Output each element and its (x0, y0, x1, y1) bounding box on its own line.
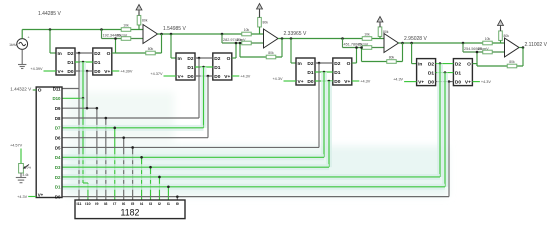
DAC block U4b (D2 O D1 D0 V+) (453, 59, 472, 86)
svg-text:+4.39V: +4.39V (30, 67, 43, 71)
svg-text:+4.3V: +4.3V (360, 80, 370, 84)
svg-text:V+: V+ (298, 79, 304, 85)
svg-text:D2: D2 (187, 56, 193, 62)
wire ADC2 D2 to DAC2 D2 (195, 57, 213, 59)
wire stage3 feedback down (402, 43, 404, 62)
wire stage2 DAC O riser (235, 43, 237, 58)
svg-text:D2: D2 (455, 62, 461, 68)
wire bit D4 column from ADC3 (321, 72, 327, 157)
node stage2 feedback joins summing node (239, 42, 242, 45)
node D9 column joins row (86, 107, 89, 110)
svg-text:O: O (467, 62, 471, 68)
wire V+ DAC1 (112, 70, 120, 72)
wire D4 drop to display I4 (141, 157, 143, 200)
svg-text:2.11002 V: 2.11002 V (525, 42, 548, 48)
wire DAC input row D0 (62, 196, 449, 198)
svg-text:In: In (298, 61, 302, 67)
node stage1 feedback joins summing node (114, 37, 117, 40)
wire stage1 feedback bottom (116, 52, 162, 54)
wire V+ ADC1 (44, 70, 57, 72)
node D10 column joins row (82, 97, 85, 100)
supply arrow stage4 (500, 23, 502, 28)
svg-text:O: O (38, 88, 42, 94)
ADC block U2a (In D2 D1 V+ D0) (176, 53, 195, 80)
svg-text:4.4k: 4.4k (23, 173, 29, 177)
svg-text:80k: 80k (142, 19, 148, 23)
node ADC3 D0 junction (328, 80, 331, 83)
wire DAC input row D6 (62, 137, 208, 139)
svg-text:D4: D4 (55, 155, 61, 160)
svg-text:D0: D0 (428, 80, 434, 86)
svg-text:1kHz: 1kHz (9, 43, 17, 47)
resistor stage4 lower input 40k (483, 50, 493, 54)
svg-text:+4.39V: +4.39V (120, 70, 133, 74)
svg-text:40k: 40k (357, 42, 363, 46)
wire bit D0 column from ADC4 (448, 82, 450, 197)
svg-text:D0: D0 (455, 80, 461, 86)
wire D11 drop to display I11 (78, 89, 80, 201)
svg-text:40k: 40k (478, 47, 484, 51)
wire source top (21, 33, 23, 39)
wire ADC1 D0 to DAC1 D0 (75, 70, 93, 72)
op-amp stage1 (143, 25, 158, 44)
node stage3 output junction (401, 42, 404, 45)
wire bit D1 column from ADC4 (442, 73, 448, 187)
wire ADC4 D2 to DAC4 D2 (436, 63, 454, 65)
wire rail2 output (278, 38, 384, 40)
svg-text:40k: 40k (237, 38, 243, 42)
node rail0 drop junction (100, 28, 103, 31)
wire stage4 feedback bottom (477, 65, 523, 67)
svg-text:10k: 10k (485, 37, 491, 41)
svg-text:I9: I9 (95, 202, 98, 206)
node rail1 to ADC2 In (170, 33, 173, 36)
wire D10 drop to display I10 (87, 183, 89, 200)
svg-text:O: O (107, 51, 111, 57)
node D2 display drop junction (158, 176, 161, 179)
node ADC2 D0 junction (207, 75, 210, 78)
wire bit D6 column from ADC2 (207, 76, 209, 138)
svg-text:V+: V+ (58, 69, 64, 75)
svg-text:I6: I6 (122, 202, 125, 206)
svg-text:1.44285 V: 1.44285 V (38, 11, 61, 17)
svg-text:10k: 10k (364, 32, 370, 36)
wire rail0 Vin (22, 29, 143, 31)
resistor stage4 feedback 80k (507, 64, 517, 68)
wire D9 drop to display I9 (96, 108, 98, 200)
wire stage4 feedback up (476, 52, 478, 66)
node ADC3 D2 junction (318, 62, 321, 65)
svg-text:+4.37V: +4.37V (150, 72, 163, 76)
resistor stage1 upper input 10k (121, 28, 131, 32)
op-amp stage4 (505, 38, 520, 57)
DAC block U9 12-bit (36, 87, 62, 198)
svg-text:80k: 80k (268, 51, 274, 55)
svg-text:80k: 80k (509, 60, 515, 64)
wire bit D9 column from ADC1 (86, 71, 88, 108)
wire V+ ADC4 (404, 81, 417, 83)
ground below source (18, 64, 26, 66)
wire stage3 lower input net (343, 47, 385, 49)
wire DAC input row D10 (62, 97, 83, 99)
wire bit D7 column from ADC2 (201, 67, 207, 128)
svg-text:In: In (58, 51, 62, 57)
wire ADC2 D0 to DAC2 D0 (195, 75, 213, 77)
resistor stage3 upper input 10k (362, 37, 372, 41)
node stage2 output junction (281, 37, 284, 40)
node ADC1 D1 junction (82, 61, 85, 64)
svg-text:D0: D0 (67, 69, 73, 75)
supply arrow stage2 (259, 7, 261, 11)
supply arrow stage3 (379, 20, 381, 24)
ADC block U1a (In D2 D1 V+ D0) (56, 48, 75, 75)
svg-text:V+: V+ (38, 193, 44, 198)
resistor stage2 feedback 80k (266, 55, 276, 59)
wire rail to ADC4 In (411, 43, 413, 64)
wire rail to ADC2 In (170, 34, 172, 58)
svg-text:I1: I1 (167, 202, 170, 206)
node ADC3 D1 junction (323, 71, 326, 74)
node D7 display drop junction (113, 127, 116, 130)
svg-text:+4.3V: +4.3V (272, 77, 282, 81)
wire DAC3 O output (352, 62, 357, 64)
svg-text:I2: I2 (158, 202, 161, 206)
wire stage1 lower input net (102, 38, 144, 40)
wire rail to ADC1 In (49, 30, 51, 54)
node stage1 output junction (160, 33, 163, 36)
svg-text:I11: I11 (76, 202, 81, 206)
node D1 display drop junction (167, 186, 170, 189)
DAC block U3b (D2 O D1 D0 V+) (333, 58, 352, 85)
wire V+ DAC2 (232, 75, 240, 77)
svg-text:D8: D8 (55, 116, 61, 121)
pot wiper arrow (24, 165, 29, 169)
svg-text:V+: V+ (178, 74, 184, 80)
node ADC1 D0 junction (86, 70, 89, 73)
resistor stage2 pull-up 80k (258, 17, 262, 27)
node rail1 drop junction (221, 33, 224, 36)
wire DAC input row D11 (62, 88, 79, 90)
svg-text:In: In (418, 62, 422, 68)
wire bit D10 column from ADC1 (80, 62, 86, 98)
wire D10 column continues (80, 98, 86, 183)
wire bit D5 column from ADC3 (318, 63, 320, 147)
svg-text:V+: V+ (418, 80, 424, 86)
node stage3 DAC O joins summing node (355, 46, 358, 49)
DAC block U1b (D2 O D1 D0 V+) (93, 48, 112, 75)
wire DAC input row D2 (62, 174, 440, 180)
svg-text:1.54985 V: 1.54985 V (163, 26, 186, 32)
ADC block U4a (In D2 D1 V+ D0) (417, 59, 436, 86)
svg-text:D0: D0 (187, 74, 193, 80)
svg-text:V+: V+ (344, 79, 350, 85)
wire ADC3 D1 to DAC3 D1 (315, 71, 333, 73)
svg-text:D2: D2 (94, 51, 100, 57)
wire V+ DAC4 (472, 81, 480, 83)
node D3 display drop junction (149, 166, 152, 169)
svg-text:+4.3V: +4.3V (240, 75, 250, 79)
resistor stage4 pull-up 80k (499, 31, 503, 41)
svg-text:D0: D0 (214, 74, 220, 80)
wire pot top stub (20, 149, 22, 165)
svg-text:D2: D2 (334, 61, 340, 67)
svg-text:I3: I3 (149, 202, 152, 206)
svg-text:D10: D10 (52, 96, 61, 101)
svg-text:D3: D3 (55, 165, 61, 170)
node ADC4 D1 junction (444, 71, 447, 74)
node rail3 to ADC4 In (410, 42, 413, 45)
svg-text:2.95028 V: 2.95028 V (404, 36, 427, 42)
wire D3 drop to display I3 (150, 167, 152, 200)
node stage3 feedback joins summing node (360, 46, 363, 49)
svg-text:+4.3V: +4.3V (393, 78, 403, 82)
wire DAC input row D1 (62, 184, 445, 190)
wire pot to ground (20, 173, 22, 178)
wire ADC2 D1 to DAC2 D1 (195, 66, 213, 68)
wire ADC4 D1 to DAC4 D1 (436, 72, 454, 74)
svg-text:V+: V+ (224, 74, 230, 80)
svg-text:D1: D1 (334, 70, 340, 76)
wire stage2 pull-up to rail (259, 27, 261, 34)
wire stage2 feedback up (239, 43, 241, 57)
svg-text:D5: D5 (55, 145, 61, 150)
wire ADC1 D1 to DAC1 D1 (75, 61, 93, 63)
wire stage4 pull-up to rail (500, 40, 502, 43)
svg-text:80k: 80k (263, 21, 269, 25)
node D5 display drop junction (131, 146, 134, 149)
node rail2 drop junction (341, 37, 344, 40)
node stage4 feedback joins summing node (476, 51, 479, 54)
wire ADC3 D0 to DAC3 D0 (315, 80, 333, 82)
svg-text:D2: D2 (67, 51, 73, 57)
wire bit D8 column from ADC2 (198, 58, 200, 118)
resistor stage1 pull-up 80k (137, 15, 141, 25)
DAC block U2b (D2 O D1 D0 V+) (213, 53, 232, 80)
resistor stage2 upper input 10k (242, 32, 252, 36)
op-amp stage3 (384, 34, 399, 53)
op-amp stage2 (264, 29, 279, 48)
svg-text:I7: I7 (113, 202, 116, 206)
wire DAC V+ supply (28, 196, 36, 198)
svg-text:D1: D1 (94, 60, 100, 66)
svg-text:D0: D0 (94, 69, 100, 75)
wire stage3 feedback up (361, 48, 363, 62)
svg-text:V+: V+ (465, 80, 471, 86)
potentiometer R13 (19, 164, 24, 174)
svg-text:D2: D2 (214, 56, 220, 62)
svg-text:D11: D11 (53, 86, 61, 91)
wire stage3 DAC O riser (356, 48, 358, 63)
node ADC2 D2 junction (198, 57, 201, 60)
node rail3 drop junction (462, 42, 465, 45)
svg-text:80k: 80k (148, 47, 154, 51)
svg-text:1.44322 V: 1.44322 V (10, 87, 32, 92)
svg-text:I5: I5 (131, 202, 134, 206)
wire D6 drop to display I6 (123, 138, 125, 200)
svg-text:D2: D2 (307, 61, 313, 67)
svg-text:In: In (178, 56, 182, 62)
svg-text:I8: I8 (104, 202, 107, 206)
svg-text:10k: 10k (123, 23, 129, 27)
node D0 display drop junction (176, 195, 179, 198)
node rail0 to ADC1 In (49, 28, 52, 31)
resistor stage3 feedback 80k (387, 60, 397, 64)
node D8 display drop junction (105, 117, 108, 120)
svg-text:80k: 80k (389, 56, 395, 60)
wire stage3 pull-up to rail (379, 36, 381, 38)
svg-text:D6: D6 (55, 135, 61, 140)
svg-text:D1: D1 (67, 60, 73, 66)
wire stage4 feedback down (522, 48, 524, 67)
wire D1 drop to display I1 (167, 187, 169, 200)
svg-text:D0: D0 (55, 194, 61, 199)
svg-text:D0: D0 (307, 79, 313, 85)
wire bit D3 column from ADC3 (326, 81, 332, 167)
wire stage1 feedback down (161, 34, 163, 53)
svg-text:+4.3V: +4.3V (481, 80, 491, 84)
wire stage2 feedback bottom (240, 56, 282, 58)
wire V+ ADC3 (284, 80, 297, 82)
node ADC2 D1 junction (202, 66, 205, 69)
svg-text:10k: 10k (244, 28, 250, 32)
display block 1182 (75, 200, 185, 219)
wire D8 drop to display I8 (105, 118, 107, 200)
wire DAC input row D9 (62, 107, 97, 109)
node D4 display drop junction (140, 156, 143, 159)
node stage4 output junction (522, 46, 525, 49)
svg-text:D1: D1 (214, 65, 220, 71)
svg-text:D7: D7 (55, 126, 61, 131)
wire source bottom (21, 49, 23, 64)
svg-text:+: + (28, 36, 30, 40)
svg-text:1182: 1182 (121, 208, 140, 218)
node ADC1 D2 junction (78, 52, 81, 55)
svg-text:D2: D2 (55, 175, 61, 180)
wire stage2 feedback down (281, 39, 283, 58)
resistor stage3 lower input 40k (362, 46, 372, 50)
supply arrow stage1 (138, 8, 140, 12)
wire DAC input row D7 (62, 125, 204, 131)
svg-text:D1: D1 (307, 70, 313, 76)
wire stage1 feedback up (115, 39, 117, 54)
wire D2 drop to display I2 (158, 177, 160, 200)
svg-text:2.33965 V: 2.33965 V (284, 31, 307, 37)
wire rail1 output (158, 33, 264, 35)
svg-text:O: O (227, 56, 231, 62)
node ADC4 D0 junction (448, 80, 451, 83)
svg-text:O: O (347, 61, 351, 67)
wire stage4 lower input net (463, 51, 505, 53)
svg-text:D2: D2 (428, 62, 434, 68)
wire DAC4 O output (472, 63, 477, 65)
svg-text:40k: 40k (116, 33, 122, 37)
wire DAC1 O output (112, 52, 116, 54)
wire rail4 output (519, 47, 523, 49)
wire DAC input row D3 (62, 164, 329, 170)
ground below pot (16, 177, 26, 179)
svg-text:D1: D1 (455, 71, 461, 77)
svg-text:D1: D1 (55, 185, 61, 190)
resistor stage1 feedback 80k (146, 51, 156, 55)
wire rail to ADC3 In (290, 39, 292, 64)
wire stage1 pull-up to rail (138, 25, 140, 30)
wire DAC O output stub (33, 89, 37, 91)
wire bit D11 column from ADC1 (78, 53, 80, 89)
resistor stage3 pull-up 80k (378, 27, 382, 37)
node rail2 to ADC3 In (290, 37, 293, 40)
svg-text:V+: V+ (104, 69, 110, 75)
node D6 display drop junction (122, 136, 125, 139)
svg-text:+4.3V: +4.3V (17, 195, 27, 199)
wire DAC input row D5 (62, 146, 319, 148)
svg-text:D9: D9 (55, 106, 61, 111)
wire DAC2 O output (232, 57, 236, 59)
wire stage3 feedback bottom (362, 61, 403, 63)
wire D10 jog (83, 182, 88, 184)
wire V+ ADC2 (164, 75, 177, 77)
wire D5 drop to display I5 (132, 147, 134, 200)
wire bit D2 column from ADC4 (437, 64, 443, 177)
wire D7 drop to display I7 (114, 128, 116, 200)
resistor stage2 lower input 40k (242, 41, 252, 45)
ADC block U3a (In D2 D1 V+ D0) (296, 58, 315, 85)
node D9 display drop junction (96, 107, 99, 110)
wire stage2 lower input net (222, 42, 264, 44)
wire DAC input row D8 (62, 117, 199, 119)
wire ADC3 D2 to DAC3 D2 (315, 62, 333, 64)
wire D0 drop to display I0 (176, 197, 178, 200)
svg-text:D1: D1 (428, 71, 434, 77)
svg-text:D1: D1 (187, 65, 193, 71)
svg-text:70%: 70% (25, 166, 31, 170)
svg-text:+4.57V: +4.57V (10, 144, 23, 148)
wire V+ DAC3 (352, 80, 360, 82)
wire DAC input row D4 (62, 154, 324, 160)
wire ADC1 D2 to DAC1 D2 (75, 52, 93, 54)
svg-text:I0: I0 (176, 202, 179, 206)
resistor stage1 lower input 40k (121, 37, 131, 41)
node stage2 DAC O joins summing node (235, 42, 238, 45)
wire ADC4 D0 to DAC4 D0 (436, 81, 454, 83)
node ADC4 D2 junction (439, 62, 442, 65)
svg-text:I10: I10 (85, 202, 90, 206)
AC source V1 (17, 39, 28, 50)
svg-text:D0: D0 (334, 79, 340, 85)
resistor stage4 upper input 10k (483, 41, 493, 45)
wire rail3 output (399, 42, 505, 44)
